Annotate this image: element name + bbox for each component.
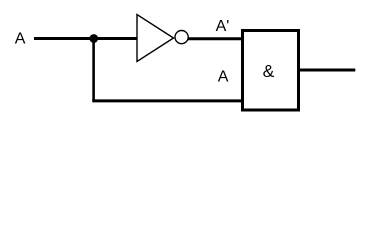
- svg-text:A: A: [218, 69, 229, 86]
- svg-text:A: A: [15, 31, 26, 48]
- svg-text:A': A': [216, 18, 230, 35]
- svg-text:&: &: [263, 61, 275, 81]
